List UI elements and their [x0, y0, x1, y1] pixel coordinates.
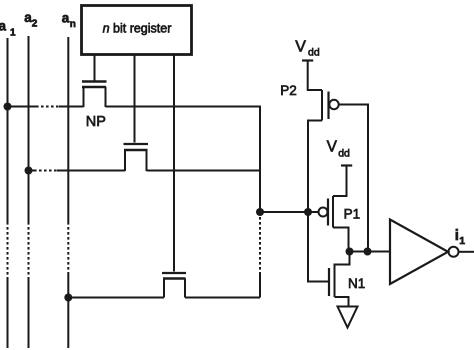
- wire P1 drain down to node: [333, 228, 349, 252]
- svg-text:1: 1: [10, 28, 16, 39]
- wire output node bus: [350, 251, 391, 253]
- svg-text:dd: dd: [338, 148, 350, 160]
- svg-text:n: n: [70, 19, 76, 30]
- wire register output stub 3: [173, 55, 175, 272]
- transistor pass NMOS 2: [124, 144, 149, 171]
- svg-text:NP: NP: [86, 114, 106, 130]
- wire a2 input line: [28, 36, 30, 348]
- ground symbol: [338, 307, 358, 328]
- svg-text:2: 2: [32, 19, 38, 30]
- svg-text:V: V: [295, 39, 306, 56]
- junction row2-a2: [25, 167, 33, 175]
- wire a1 input line: [7, 38, 9, 348]
- junction row3-an: [64, 294, 72, 302]
- power Vdd supply 1 bar: [302, 59, 313, 61]
- power Vdd supply 2 bar: [341, 164, 352, 166]
- junction node-P2drain: [304, 208, 312, 216]
- svg-text:a: a: [0, 19, 7, 34]
- node a1 label: [0, 19, 16, 39]
- wire row2 dashed section: [34, 170, 57, 172]
- wire row1 dashed section: [36, 106, 59, 108]
- transistor P2 label: [280, 83, 297, 98]
- svg-text:1: 1: [459, 235, 465, 247]
- wire right column dashed section: [259, 217, 261, 272]
- transistor pass NMOS 3: [162, 273, 186, 298]
- power Vdd supply 2 label: [327, 139, 350, 160]
- n bit register label: [103, 22, 172, 36]
- wire register output stub 2: [134, 55, 136, 143]
- transistor NP label: [86, 114, 106, 130]
- wire Vdd1 to P2 source: [308, 61, 322, 91]
- svg-text:dd: dd: [308, 46, 320, 58]
- junction node-array: [256, 208, 264, 216]
- wire Vdd2 to P1 source: [333, 166, 347, 197]
- transistor N1 NMOS: [308, 212, 350, 307]
- power Vdd supply 1 label: [295, 39, 320, 59]
- wire row1 bus: [8, 106, 261, 108]
- wire a2 dashed section: [28, 222, 30, 277]
- node a2 label: [24, 10, 38, 30]
- wire row2 bus: [29, 170, 261, 172]
- transistor P1 PMOS: [319, 196, 334, 228]
- wire an input line: [67, 37, 69, 348]
- svg-text:P1: P1: [344, 207, 361, 222]
- wire inverter output: [459, 251, 474, 253]
- transistor NP pass NMOS 1: [82, 82, 107, 108]
- junction node-P1drain: [346, 248, 354, 256]
- svg-text:n bit register: n bit register: [103, 22, 172, 36]
- svg-text:N1: N1: [348, 276, 365, 291]
- wire P2 gate to output node: [339, 105, 368, 252]
- wire P2 drain down to node: [308, 121, 322, 213]
- transistor P2 PMOS: [322, 90, 339, 121]
- node an label: [62, 10, 76, 30]
- transistor P1 label: [344, 207, 361, 222]
- wire an dashed section: [67, 222, 69, 272]
- node i1 output label: [455, 227, 465, 247]
- wire register output stub 1: [94, 55, 96, 81]
- svg-text:a: a: [62, 10, 70, 25]
- svg-text:P2: P2: [280, 83, 297, 98]
- svg-text:V: V: [327, 139, 338, 156]
- gate inverter U2: [390, 220, 459, 285]
- wire a1 dashed section: [7, 222, 9, 277]
- wire node bus to P1 gate: [260, 211, 319, 213]
- wire row3 bus: [68, 297, 260, 299]
- wire right column joining rows: [259, 106, 261, 298]
- transistor N1 label: [348, 276, 365, 291]
- junction row1-a1: [4, 103, 12, 111]
- n bit register U1: [82, 6, 192, 55]
- junction node-P2gate: [364, 248, 372, 256]
